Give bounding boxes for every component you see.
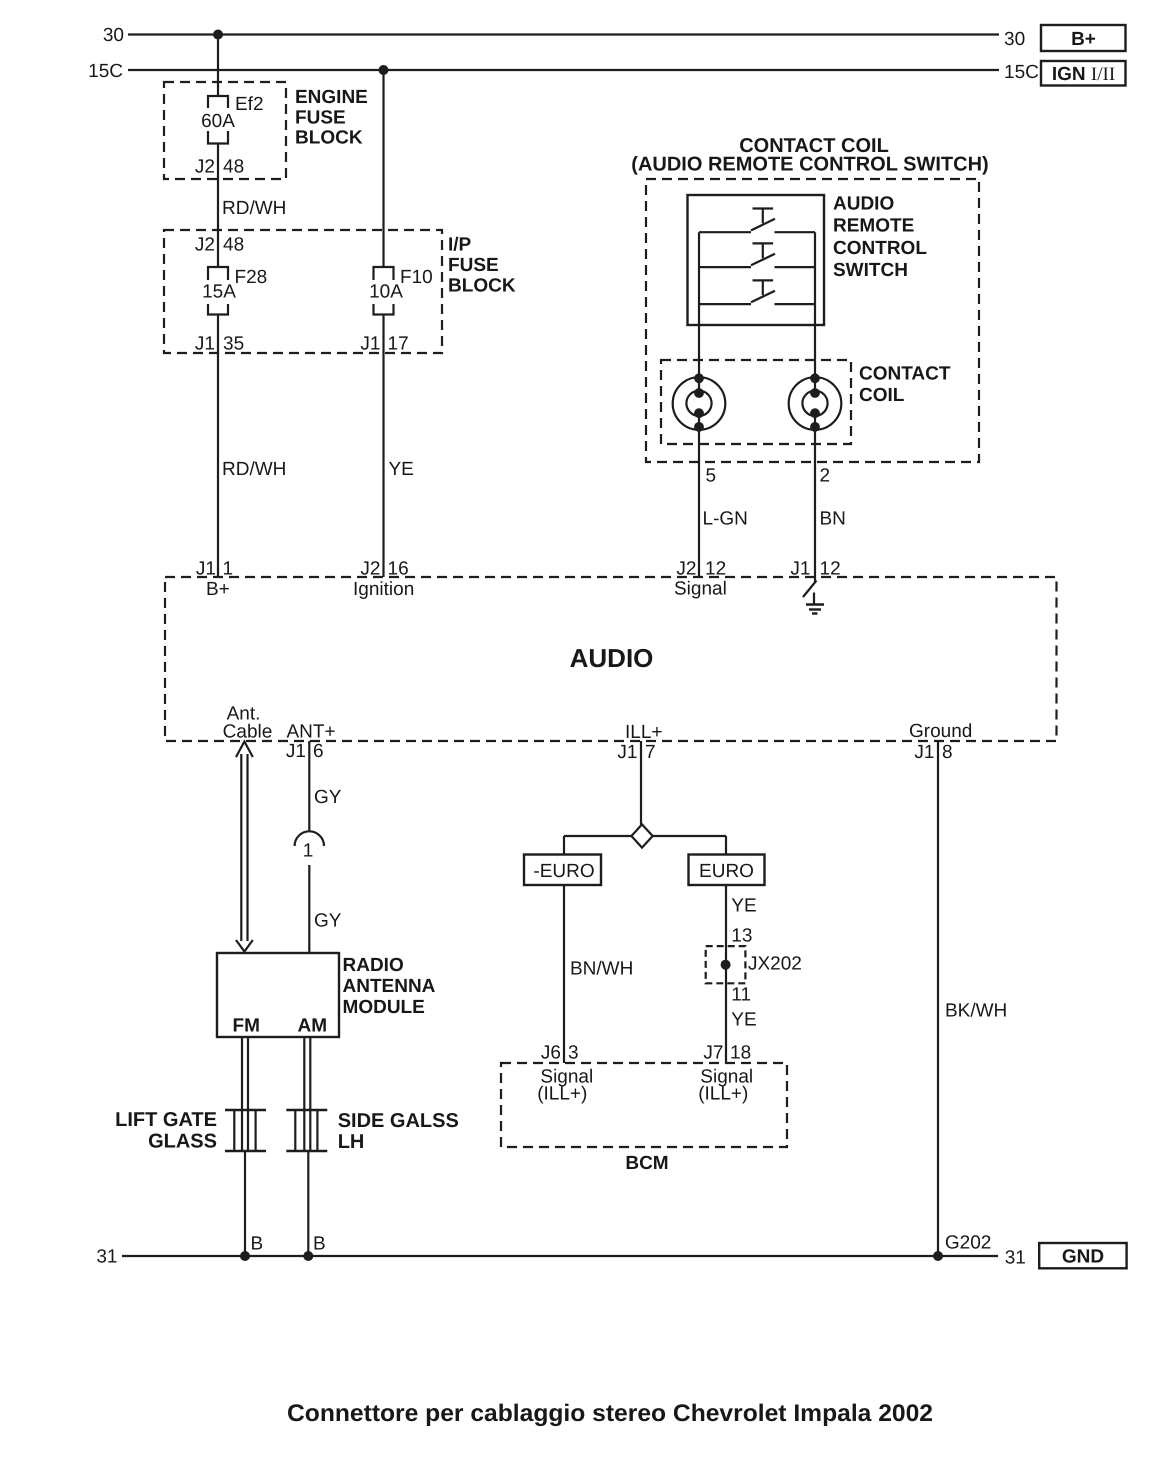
pin J1 6 bbox=[286, 741, 324, 762]
pin J1 12 bbox=[790, 559, 840, 580]
svg-text:G202: G202 bbox=[945, 1233, 991, 1254]
pin J2 48 engine fuse block bbox=[195, 157, 244, 178]
coil L1 bbox=[673, 373, 726, 431]
wire coil L1 to audio Signal bbox=[698, 427, 700, 577]
svg-text:GND: GND bbox=[1062, 1247, 1104, 1268]
switch S2 bbox=[699, 243, 815, 267]
svg-text:30: 30 bbox=[1004, 29, 1025, 50]
option box EURO bbox=[689, 855, 765, 886]
svg-text:FM: FM bbox=[233, 1016, 260, 1037]
svg-text:18: 18 bbox=[730, 1043, 751, 1064]
net box GND bbox=[1039, 1243, 1126, 1268]
ground bus 31 wire bbox=[122, 1255, 998, 1257]
junction AM to bus 31 bbox=[303, 1251, 313, 1261]
svg-text:60A: 60A bbox=[201, 111, 235, 132]
side glass antenna element bbox=[286, 1110, 327, 1151]
svg-text:J2: J2 bbox=[195, 157, 215, 178]
pin J1 17 bbox=[360, 334, 408, 355]
net box IGN I/II bbox=[1041, 61, 1126, 86]
svg-text:B+: B+ bbox=[1071, 29, 1096, 50]
net box B+ bbox=[1041, 25, 1126, 51]
svg-text:1: 1 bbox=[303, 841, 314, 862]
svg-text:ANT+: ANT+ bbox=[287, 722, 336, 743]
svg-text:-EURO: -EURO bbox=[533, 861, 594, 882]
inline connector pin 1 bbox=[295, 831, 324, 861]
svg-text:13: 13 bbox=[731, 926, 752, 947]
wire AM element to ground bus bbox=[307, 1151, 309, 1256]
svg-text:RD/WH: RD/WH bbox=[222, 459, 286, 480]
svg-text:J1: J1 bbox=[195, 334, 215, 355]
svg-text:J1: J1 bbox=[196, 559, 216, 580]
svg-text:3: 3 bbox=[568, 1043, 579, 1064]
fuse F10 bbox=[369, 267, 433, 315]
svg-text:F28: F28 bbox=[235, 267, 268, 288]
svg-text:6: 6 bbox=[313, 741, 324, 762]
svg-text:GY: GY bbox=[314, 787, 342, 808]
svg-text:J1: J1 bbox=[286, 741, 306, 762]
pin J1 8 bbox=[914, 742, 952, 763]
I/P fuse block outline bbox=[164, 230, 442, 353]
switch S3 bbox=[699, 280, 815, 304]
svg-text:(ILL+): (ILL+) bbox=[537, 1084, 587, 1105]
antenna coax cable bbox=[236, 742, 253, 952]
wire EURO to BCM J7-18 bbox=[725, 885, 727, 1063]
svg-text:10A: 10A bbox=[369, 282, 403, 303]
svg-text:B+: B+ bbox=[206, 579, 230, 600]
audio remote control switch box bbox=[688, 195, 825, 325]
svg-text:BCM: BCM bbox=[625, 1153, 668, 1174]
svg-text:35: 35 bbox=[223, 334, 244, 355]
svg-text:5: 5 bbox=[706, 466, 717, 487]
wire 15C to F10 bbox=[382, 70, 384, 267]
svg-text:Ignition: Ignition bbox=[353, 579, 414, 600]
junction on bus 15C bbox=[379, 65, 389, 75]
FM coax to lift gate glass bbox=[242, 1037, 248, 1151]
svg-text:IGN I/II: IGN I/II bbox=[1052, 64, 1115, 85]
ground symbol at audio J1-12 bbox=[803, 577, 824, 614]
bus 15C wire bbox=[128, 69, 999, 71]
switch right bus wire bbox=[814, 232, 816, 378]
svg-text:Ground: Ground bbox=[909, 721, 972, 742]
junction block JX202 bbox=[706, 946, 802, 983]
svg-text:YE: YE bbox=[389, 459, 414, 480]
AM coax to side glass bbox=[304, 1037, 310, 1151]
svg-text:11: 11 bbox=[731, 985, 751, 1006]
switch S1 bbox=[699, 209, 815, 233]
pin J1 7 bbox=[617, 742, 655, 763]
svg-text:ILL+: ILL+ bbox=[625, 722, 663, 743]
wire audio Ground to G202 bbox=[937, 741, 939, 1256]
svg-text:GY: GY bbox=[314, 911, 342, 932]
pin J1 1 bbox=[196, 559, 233, 601]
svg-text:(AUDIO REMOTE CONTROL SWITCH): (AUDIO REMOTE CONTROL SWITCH) bbox=[631, 154, 988, 176]
svg-text:7: 7 bbox=[645, 742, 656, 763]
coil L2 bbox=[789, 373, 842, 431]
junction G202 bbox=[933, 1251, 943, 1261]
pin J7 18 bbox=[703, 1043, 751, 1064]
svg-text:48: 48 bbox=[223, 235, 244, 256]
svg-text:Cable: Cable bbox=[223, 722, 273, 743]
lift gate glass antenna element bbox=[225, 1110, 266, 1151]
bus 30 wire bbox=[128, 33, 999, 35]
wire splice to EURO bbox=[725, 836, 727, 855]
switch left bus wire bbox=[698, 232, 700, 378]
svg-text:EURO: EURO bbox=[699, 861, 754, 882]
svg-text:BN: BN bbox=[820, 509, 846, 530]
svg-text:B: B bbox=[313, 1234, 326, 1255]
svg-text:15C: 15C bbox=[1004, 62, 1039, 83]
svg-text:YE: YE bbox=[731, 896, 756, 917]
svg-text:J1: J1 bbox=[617, 742, 637, 763]
svg-text:12: 12 bbox=[705, 559, 726, 580]
pin J2 48 I/P fuse block bbox=[195, 235, 244, 256]
svg-text:YE: YE bbox=[731, 1010, 756, 1031]
svg-text:1: 1 bbox=[223, 559, 234, 580]
pin J1 35 bbox=[195, 334, 244, 355]
wire F10 to audio Ignition bbox=[382, 315, 384, 578]
svg-text:17: 17 bbox=[388, 334, 409, 355]
wire audio ANT+ to inline connector bbox=[308, 741, 310, 831]
wire audio ILL+ to splice bbox=[640, 741, 642, 825]
wire F28 to audio B+ bbox=[217, 315, 219, 578]
svg-text:48: 48 bbox=[223, 157, 244, 178]
svg-text:Signal: Signal bbox=[674, 579, 727, 600]
wire bus30 to fuse Ef2 bbox=[217, 35, 219, 97]
contact coil outline bbox=[661, 360, 851, 444]
svg-text:J2: J2 bbox=[195, 235, 215, 256]
svg-text:15C: 15C bbox=[88, 61, 123, 82]
svg-text:2: 2 bbox=[820, 466, 831, 487]
svg-text:8: 8 bbox=[942, 742, 953, 763]
svg-text:L-GN: L-GN bbox=[703, 509, 748, 530]
contact coil assembly outline bbox=[646, 179, 979, 462]
splice horizontal wire bbox=[564, 835, 726, 837]
svg-text:AM: AM bbox=[298, 1016, 328, 1037]
svg-text:30: 30 bbox=[103, 25, 124, 46]
svg-text:J1: J1 bbox=[360, 334, 380, 355]
wire splice to -EURO bbox=[563, 836, 565, 855]
svg-text:J2: J2 bbox=[676, 559, 696, 580]
fuse Ef2 bbox=[201, 94, 263, 144]
svg-text:J1: J1 bbox=[914, 742, 934, 763]
svg-text:15A: 15A bbox=[202, 282, 236, 303]
svg-text:31: 31 bbox=[96, 1247, 117, 1268]
pin J6 3 bbox=[541, 1043, 579, 1064]
svg-text:J1: J1 bbox=[790, 559, 810, 580]
fuse F28 bbox=[202, 267, 267, 315]
svg-text:J6: J6 bbox=[541, 1043, 561, 1064]
wire Ef2 to F28 bbox=[217, 144, 219, 268]
splice diamond bbox=[631, 824, 652, 847]
svg-text:BN/WH: BN/WH bbox=[570, 959, 633, 980]
svg-text:Ef2: Ef2 bbox=[235, 94, 264, 115]
svg-text:12: 12 bbox=[820, 559, 841, 580]
engine fuse block outline bbox=[164, 82, 286, 179]
junction on bus 30 bbox=[213, 30, 223, 40]
svg-text:(ILL+): (ILL+) bbox=[698, 1084, 748, 1105]
wire -EURO to BCM J6-3 bbox=[563, 885, 565, 1063]
svg-text:RD/WH: RD/WH bbox=[222, 198, 286, 219]
svg-text:AUDIO: AUDIO bbox=[570, 643, 654, 673]
wire connector to radio antenna module bbox=[308, 865, 310, 953]
svg-text:J7: J7 bbox=[703, 1043, 723, 1064]
option box -EURO bbox=[524, 855, 601, 886]
svg-text:F10: F10 bbox=[400, 267, 433, 288]
svg-text:B: B bbox=[251, 1234, 264, 1255]
wire coil L2 to audio ground pin bbox=[814, 427, 816, 577]
svg-text:31: 31 bbox=[1005, 1248, 1026, 1269]
wire FM element to ground bus bbox=[244, 1151, 246, 1256]
audio unit outline bbox=[165, 577, 1057, 741]
radio antenna module box bbox=[217, 953, 339, 1037]
pin J2 12 bbox=[674, 559, 727, 600]
svg-text:16: 16 bbox=[388, 559, 409, 580]
BCM outline bbox=[501, 1063, 787, 1147]
svg-text:J2: J2 bbox=[360, 559, 380, 580]
svg-text:Connettore per cablaggio stere: Connettore per cablaggio stereo Chevrole… bbox=[287, 1400, 933, 1427]
pin J2 16 bbox=[353, 559, 414, 601]
svg-text:BK/WH: BK/WH bbox=[945, 1001, 1007, 1022]
junction FM to bus 31 bbox=[240, 1251, 250, 1261]
svg-text:JX202: JX202 bbox=[748, 954, 802, 975]
